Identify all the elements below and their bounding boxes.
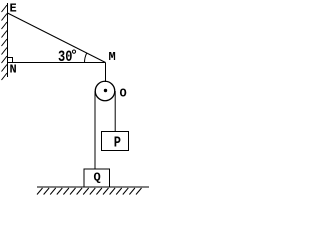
svg-text:O: O	[120, 87, 127, 101]
left rope (pulley to Q)	[94, 91, 96, 169]
block Q (on ground)	[84, 169, 110, 187]
ground hatch 2	[44, 188, 50, 195]
wall hatch 5	[2, 39, 8, 46]
svg-text:P: P	[114, 135, 121, 151]
wall hatch 4	[2, 31, 8, 38]
ground hatch 15	[129, 188, 135, 195]
svg-text:E: E	[10, 2, 17, 16]
wall hatch 6	[2, 48, 8, 55]
ground hatch 3	[50, 188, 56, 195]
svg-text:Q: Q	[94, 171, 101, 185]
rope from M to pulley	[105, 63, 107, 83]
ground hatch 7	[77, 188, 83, 195]
svg-text:30: 30	[58, 50, 72, 67]
ground hatch 6	[70, 188, 76, 195]
beam EM (slanted rod)	[8, 13, 106, 63]
ground hatch 13	[116, 188, 122, 195]
wall vertical line	[7, 3, 9, 77]
beam NM (horizontal rod)	[8, 62, 106, 64]
angle arc at M	[84, 53, 86, 62]
ground hatch 14	[123, 188, 129, 195]
right rope (pulley to P)	[114, 91, 116, 132]
angle 30 deg label	[58, 50, 72, 67]
ground hatch 9	[90, 188, 96, 195]
pulley axle dot	[104, 89, 107, 92]
ground hatch 4	[57, 188, 63, 195]
wall hatch 7	[2, 56, 8, 63]
right-angle mark at N	[8, 58, 13, 63]
ground hatch 12	[110, 188, 116, 195]
svg-text:M: M	[109, 50, 116, 64]
block P (hanging weight)	[102, 132, 129, 151]
wall hatch 2	[2, 14, 8, 21]
degree symbol of 30 deg	[72, 50, 75, 53]
svg-text:N: N	[10, 63, 17, 77]
ground hatch 16	[136, 188, 142, 195]
ground hatch 10	[96, 188, 102, 195]
pulley O (wheel)	[95, 81, 115, 101]
wall hatch 1	[2, 5, 8, 12]
wall hatch 3	[2, 22, 8, 29]
ground hatch 5	[63, 188, 69, 195]
wall hatch 9	[2, 73, 8, 80]
ground hatch 1	[37, 188, 43, 195]
wall hatch 8	[2, 65, 8, 72]
ground hatch 11	[103, 188, 109, 195]
ground hatch 8	[83, 188, 89, 195]
ground line	[37, 186, 149, 188]
